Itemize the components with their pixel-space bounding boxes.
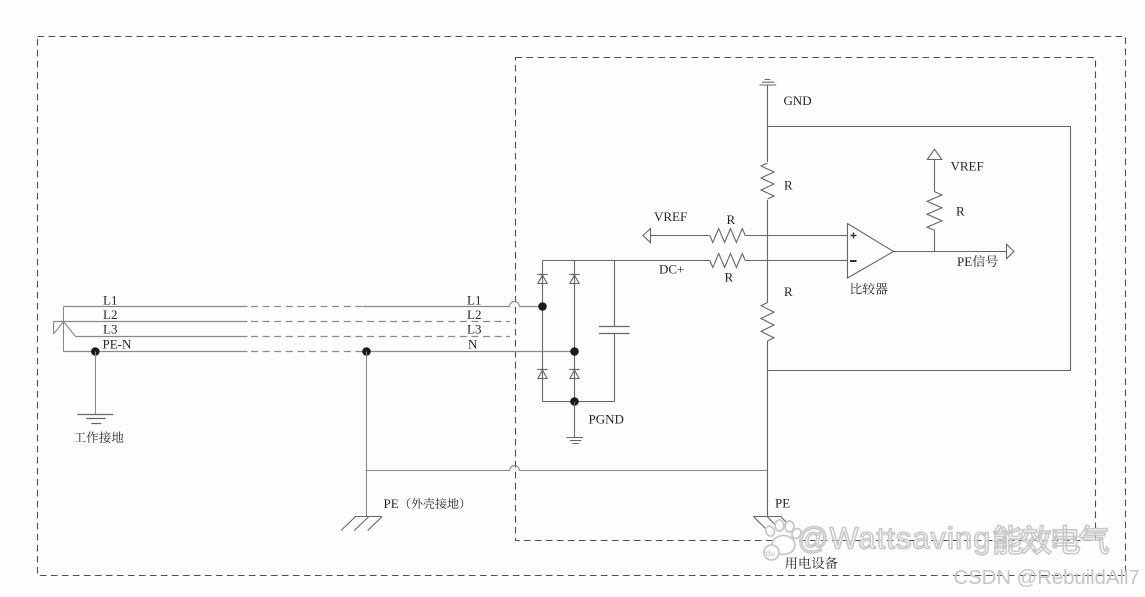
- resistor R1 upper divider: [761, 163, 774, 199]
- VREF left arrow: [643, 229, 651, 243]
- chassis earth symbol right PE: [753, 517, 794, 531]
- wire to working earth: [95, 352, 97, 415]
- bridge left branch wire: [542, 261, 544, 402]
- svg-text:PE-N: PE-N: [103, 337, 133, 352]
- svg-text:@Wattsaving: @Wattsaving: [798, 522, 992, 556]
- junction dot N bridge: [570, 347, 579, 356]
- VREF up arrow: [927, 149, 941, 159]
- junction dot N to PE: [362, 347, 371, 356]
- wire op-amp output: [894, 251, 1007, 253]
- wire PE rail crossover hump: [510, 466, 520, 471]
- resistor R4: [710, 254, 746, 268]
- wire to PGND ground: [574, 402, 576, 438]
- wire L3: [76, 336, 248, 338]
- bridge bottom rail wire: [543, 401, 615, 403]
- ground symbol GND (inverted): [760, 80, 777, 86]
- left bus vertical wire: [63, 307, 65, 352]
- diode D1 upper-left: [537, 274, 547, 276]
- divider vertical wire from GND: [767, 85, 769, 162]
- diode D4 lower-right: [569, 369, 579, 371]
- label 比较器: [851, 283, 862, 294]
- incoming supply arrow symbol: [54, 322, 76, 337]
- wire output to R5: [934, 230, 936, 251]
- svg-text:VREF: VREF: [951, 159, 984, 174]
- svg-text:R: R: [784, 178, 793, 193]
- capacitor C1 top lead: [614, 261, 616, 327]
- wire L1: [64, 306, 248, 308]
- diode D2 upper-right: [569, 274, 579, 276]
- svg-text:VREF: VREF: [654, 209, 687, 224]
- svg-text:PE: PE: [957, 254, 972, 269]
- divider vertical wire to PE chassis: [767, 341, 769, 517]
- svg-text:DC+: DC+: [659, 262, 684, 277]
- inner dashed box 用电设备: [516, 58, 1096, 541]
- wire L2: [54, 321, 248, 323]
- wire DC+ top rail: [543, 260, 710, 262]
- svg-text:L3: L3: [103, 322, 117, 337]
- svg-text:L2: L2: [467, 307, 481, 322]
- label 工作接地: [74, 432, 86, 441]
- junction dot PE-N working earth: [91, 347, 100, 356]
- divider vertical wire middle: [767, 200, 769, 303]
- svg-text:L1: L1: [467, 293, 481, 308]
- junction dot L1 bridge: [538, 302, 547, 311]
- svg-text:PGND: PGND: [589, 412, 624, 427]
- capacitor C1 plates: [599, 327, 630, 334]
- wire R4 to op-amp - input: [745, 260, 847, 262]
- chassis earth symbol left PE 外壳接地: [341, 517, 382, 531]
- svg-text:R: R: [727, 212, 736, 227]
- svg-text:du: du: [766, 548, 776, 558]
- svg-text:L1: L1: [103, 293, 117, 308]
- diode D3 lower-left: [537, 369, 547, 371]
- resistor R3: [710, 229, 746, 243]
- svg-text:R: R: [956, 204, 965, 219]
- wire VREF to R3: [651, 235, 710, 237]
- svg-text:R: R: [784, 284, 793, 299]
- resistor R2 lower divider: [761, 303, 774, 342]
- op-amp + pin mark: [851, 233, 857, 239]
- wire L1 crossover hump: [510, 302, 520, 307]
- op-amp - pin mark: [850, 260, 857, 262]
- svg-text:L3: L3: [467, 322, 481, 337]
- bridge right branch wire: [574, 261, 576, 402]
- svg-text:GND: GND: [784, 93, 812, 108]
- wire PE rail: [367, 470, 510, 472]
- watermark paw icon: [764, 520, 803, 560]
- wire R5 to VREF arrow: [934, 160, 936, 192]
- svg-text:CSDN @RebuildAll7: CSDN @RebuildAll7: [954, 567, 1140, 589]
- wire R3 to op-amp + input: [745, 235, 847, 237]
- svg-text:PE: PE: [384, 496, 399, 511]
- wire PE-N / N: [64, 351, 248, 353]
- junction dot bottom rail PGND: [570, 397, 579, 406]
- svg-text:N: N: [468, 337, 478, 352]
- svg-text:L2: L2: [103, 307, 117, 322]
- wire N-dot down to chassis earth: [366, 352, 368, 517]
- capacitor C1 bottom lead: [614, 334, 616, 402]
- ground symbol 工作接地: [77, 415, 113, 424]
- svg-text:R: R: [725, 270, 734, 285]
- resistor R5 pull-up: [927, 192, 942, 231]
- label 用电设备: [785, 557, 797, 569]
- svg-text:PE: PE: [775, 496, 790, 511]
- op-amp U1 comparator: [848, 224, 894, 279]
- solid box comparator circuit: [768, 127, 1071, 371]
- ground symbol PGND: [567, 438, 584, 444]
- output arrow PE信号: [1007, 244, 1015, 258]
